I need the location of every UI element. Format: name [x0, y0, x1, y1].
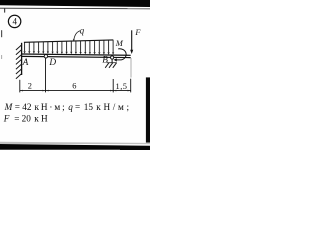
dimension tick at A [19, 80, 21, 93]
label q with leader [74, 31, 80, 41]
svg-text:M=42кН·м;q=15кН/м;: M=42кН·м;q=15кН/м; [4, 102, 132, 112]
distributed load arrows [25, 40, 114, 53]
support B: pin circle [111, 56, 114, 59]
svg-text:2: 2 [28, 82, 32, 91]
moment M arc [116, 49, 126, 60]
top black scan bar [0, 0, 150, 7]
svg-text:q: q [80, 26, 85, 36]
left corner tick [4, 9, 5, 13]
bottom black scan bar [0, 144, 150, 150]
svg-text:F: F [134, 28, 141, 37]
svg-text:4: 4 [12, 17, 17, 27]
support B: link [111, 59, 113, 63]
point D circle [44, 55, 47, 58]
top frame line [0, 8, 150, 10]
dimension line [20, 90, 131, 92]
svg-text:M: M [115, 38, 124, 48]
dimension tick / extension at D [45, 58, 47, 92]
left dashed page edge [1, 30, 2, 37]
dimension arrowheads [20, 90, 130, 92]
svg-text:D: D [48, 58, 56, 68]
dimension tick at B [112, 79, 114, 92]
svg-text:A: A [22, 58, 29, 68]
svg-text:1,5: 1,5 [116, 82, 128, 91]
force F arrow [131, 30, 133, 51]
support B: ground hatching [105, 63, 116, 68]
bottom gray band [0, 142, 150, 145]
wall support at A [21, 43, 23, 75]
distributed load q : top line [24, 40, 113, 42]
support B: ground line [107, 62, 117, 64]
dimension tick at right end [130, 79, 132, 93]
moment M arrowhead [114, 58, 117, 61]
extension line below beam end [130, 58, 132, 78]
beam (double line) [22, 54, 131, 55]
distributed load arrowheads [24, 51, 115, 55]
task number circle 4 [8, 15, 20, 27]
right page scan bar [146, 77, 150, 142]
svg-text:6: 6 [72, 82, 76, 91]
wall hatching [16, 45, 22, 79]
